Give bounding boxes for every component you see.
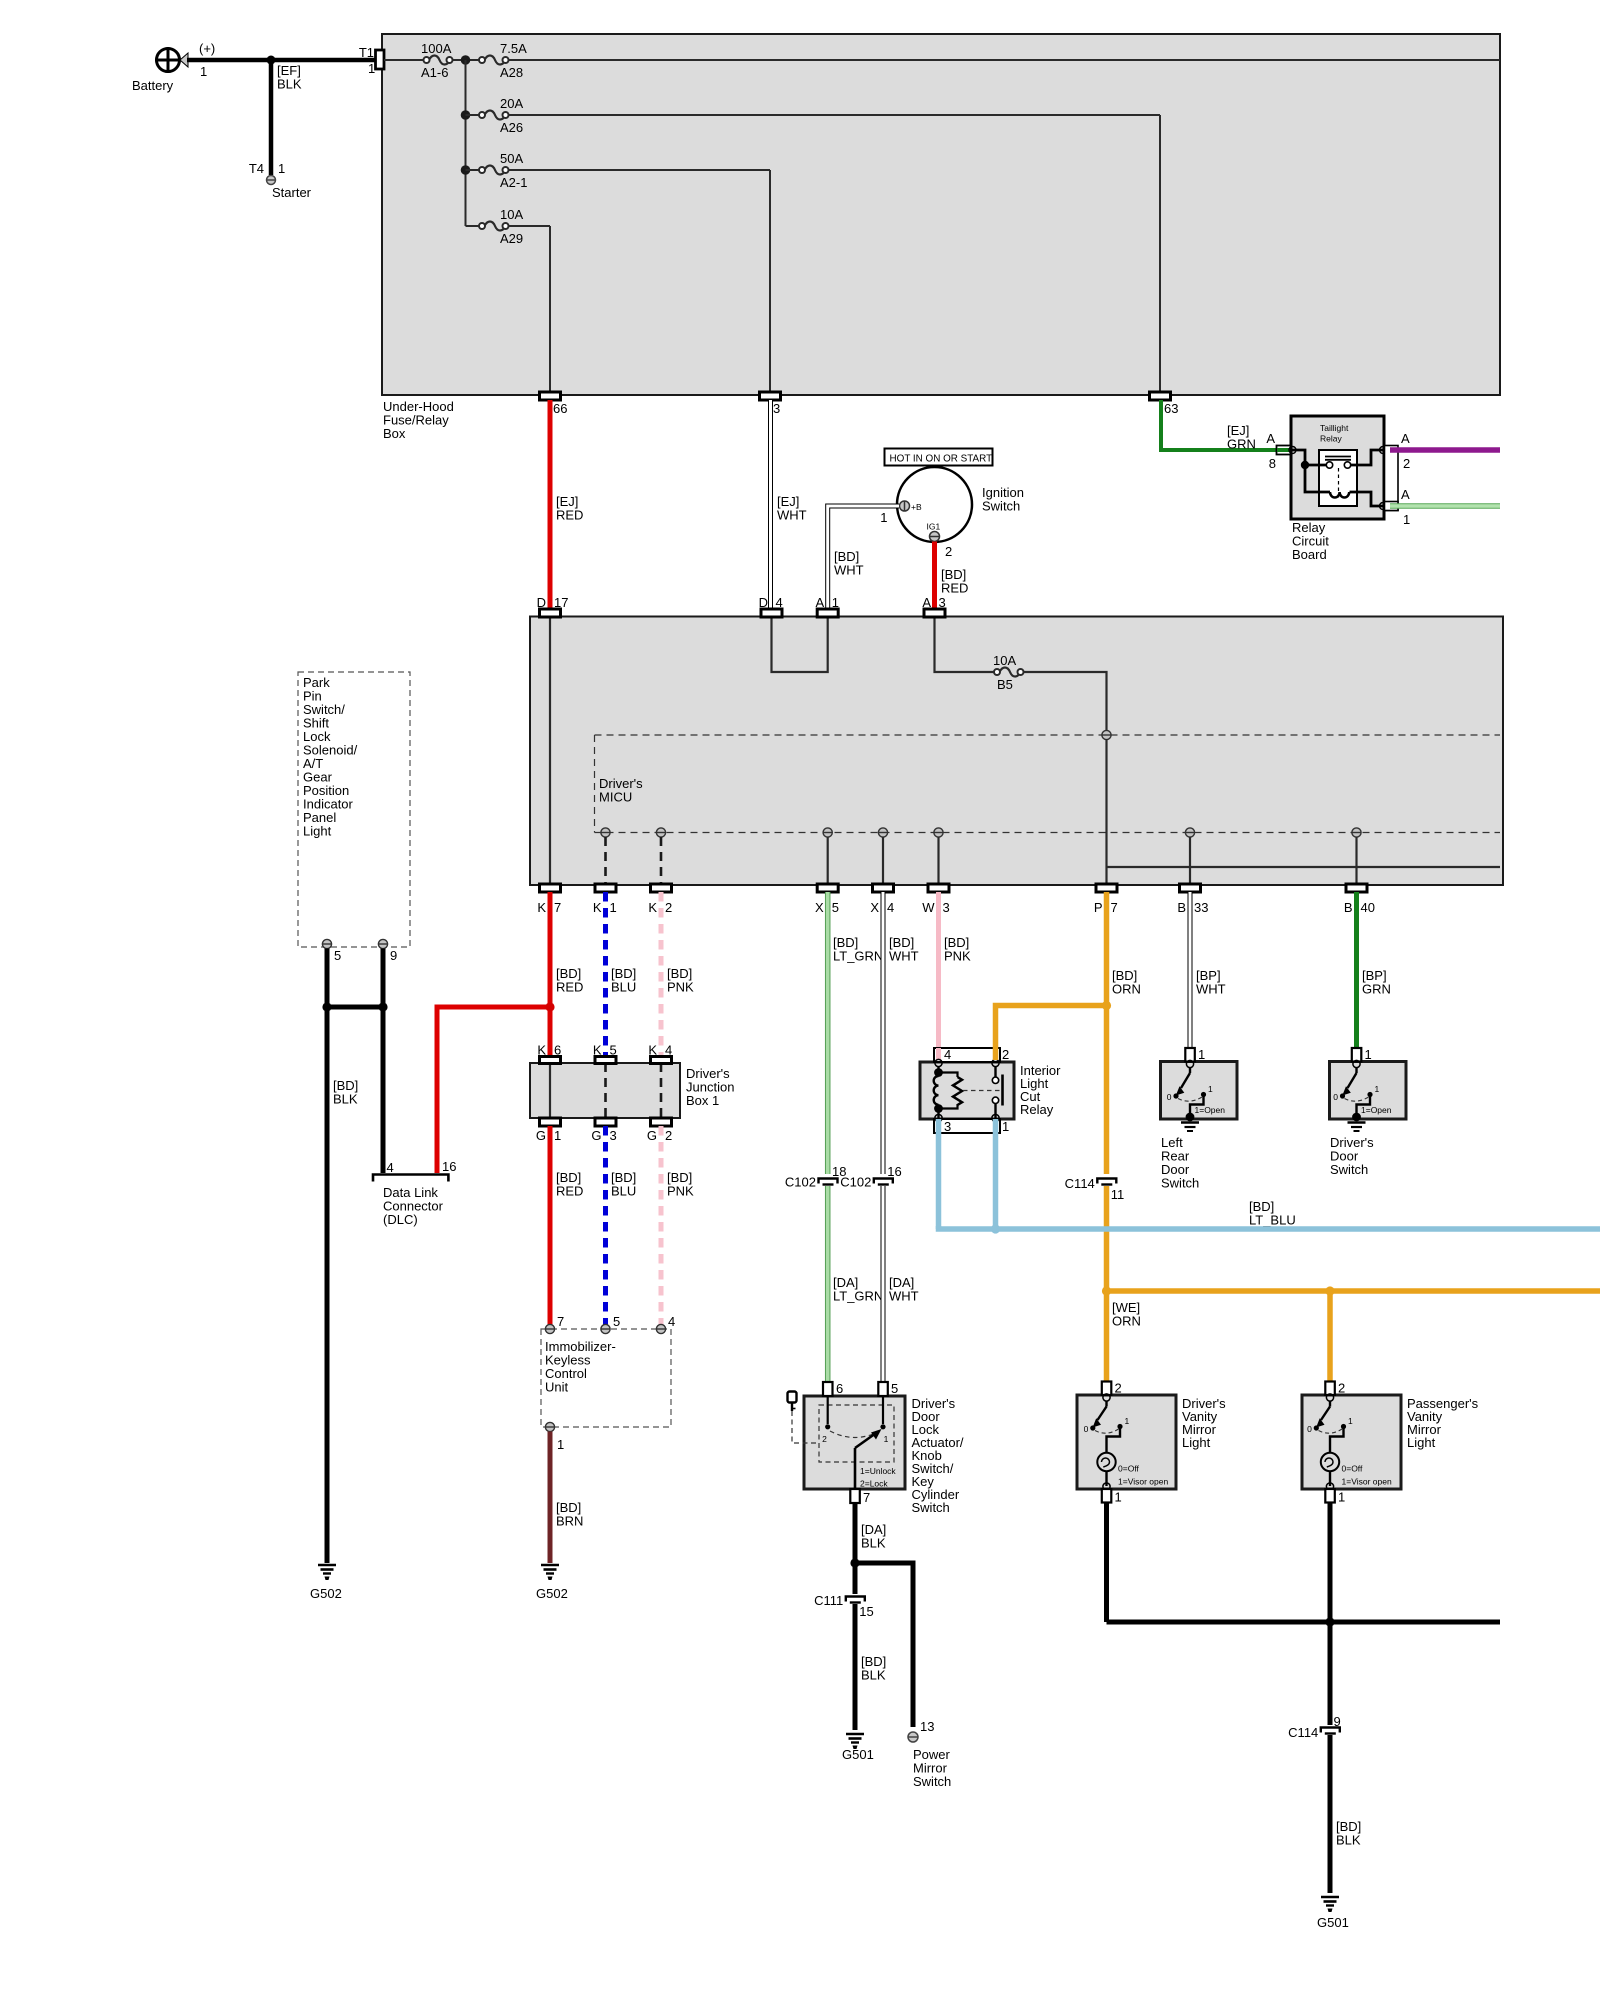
wire MICU internal D4 to A1 xyxy=(772,617,828,673)
svg-text:A: A xyxy=(1266,431,1275,446)
pin G3 xyxy=(591,1118,616,1143)
node X5 xyxy=(823,828,832,837)
junction black at power mirror branch xyxy=(850,1558,859,1567)
driver's door switch contact 1 xyxy=(1367,1084,1379,1097)
svg-text:Light: Light xyxy=(1182,1435,1211,1450)
svg-text:7.5A: 7.5A xyxy=(500,41,527,56)
wire orange to passenger vanity xyxy=(1327,1291,1333,1383)
svg-text:Starter: Starter xyxy=(272,185,312,200)
relay coil xyxy=(934,1066,943,1118)
passenger's vanity pin 2 xyxy=(1325,1381,1345,1396)
svg-text:0: 0 xyxy=(1333,1092,1338,1102)
svg-text:Switch: Switch xyxy=(912,1500,950,1515)
MICU fuse box body xyxy=(530,617,1503,886)
svg-text:LT_BLU: LT_BLU xyxy=(1249,1213,1296,1228)
ground G501 right xyxy=(1317,1897,1349,1930)
passenger's vanity legend xyxy=(1342,1464,1392,1487)
node immobilizer 7 xyxy=(545,1314,564,1334)
pin K1 xyxy=(593,884,617,915)
terminal IG1 pin 2 xyxy=(927,522,953,560)
wire [DA] BLK actuator 7 down xyxy=(855,1503,886,1563)
svg-text:3: 3 xyxy=(944,1119,951,1134)
svg-text:HOT IN ON OR START: HOT IN ON OR START xyxy=(890,454,993,465)
passenger's vanity top circle xyxy=(1326,1394,1333,1401)
svg-text:G: G xyxy=(647,1128,657,1143)
svg-text:2: 2 xyxy=(1403,456,1410,471)
svg-text:BLK: BLK xyxy=(1336,1833,1361,1848)
fuse 100A A1-6 xyxy=(421,41,453,80)
relay switch contacts xyxy=(992,1066,1002,1118)
connector C114 pin 11 xyxy=(1065,1176,1125,1202)
svg-text:WHT: WHT xyxy=(834,563,864,578)
svg-text:G501: G501 xyxy=(1317,1915,1349,1930)
connector C102 pin 16 xyxy=(840,1164,902,1190)
svg-text:RED: RED xyxy=(941,581,968,596)
left rear door switch box xyxy=(1161,1062,1238,1191)
svg-text:1: 1 xyxy=(610,900,617,915)
svg-text:Relay: Relay xyxy=(1020,1102,1054,1117)
node park pin 5 xyxy=(322,939,341,963)
svg-text:7: 7 xyxy=(557,1314,564,1329)
battery B1 xyxy=(132,41,215,93)
passenger's vanity lamp feed xyxy=(1330,1427,1344,1453)
wire junction box internal K5-G3 dashed xyxy=(604,1063,607,1118)
park pin switch / shift lock solenoid dashed box xyxy=(298,672,410,947)
left rear door switch common path xyxy=(1190,1095,1204,1116)
svg-text:LT_GRN: LT_GRN xyxy=(833,949,883,964)
pin A1 xyxy=(816,595,839,617)
relay board coil junction xyxy=(1301,461,1309,469)
svg-text:11: 11 xyxy=(1111,1187,1125,1202)
svg-text:G: G xyxy=(591,1128,601,1143)
wire [BD] BLK C111 to G501 xyxy=(855,1604,886,1730)
starter terminal T4-1 xyxy=(249,161,312,200)
connector T1 pin 1 xyxy=(359,45,384,76)
svg-text:0=Off: 0=Off xyxy=(1342,1464,1364,1474)
wire MICU internal node to P7 and bus xyxy=(1107,739,1501,885)
svg-text:BLK: BLK xyxy=(861,1668,886,1683)
svg-text:7: 7 xyxy=(863,1490,870,1505)
svg-text:9: 9 xyxy=(390,948,397,963)
svg-text:63: 63 xyxy=(1164,401,1178,416)
svg-text:Relay: Relay xyxy=(1320,434,1342,444)
svg-text:1: 1 xyxy=(1002,1119,1009,1134)
svg-text:Taillight: Taillight xyxy=(1320,423,1349,433)
node K2 xyxy=(656,828,665,837)
svg-text:ORN: ORN xyxy=(1112,982,1141,997)
svg-text:X: X xyxy=(870,900,879,915)
svg-text:Box 1: Box 1 xyxy=(686,1093,719,1108)
svg-text:8: 8 xyxy=(1269,456,1276,471)
connector C102 pin 18 xyxy=(785,1164,847,1190)
ground G501 left xyxy=(842,1734,874,1762)
node park pin 9 xyxy=(378,939,397,963)
wire [DA] WHT C102 to actuator 5 xyxy=(883,1186,919,1383)
wire PUR relay output 2 xyxy=(1390,447,1500,453)
svg-text:17: 17 xyxy=(554,595,568,610)
svg-text:PNK: PNK xyxy=(667,1184,694,1199)
svg-text:5: 5 xyxy=(610,1043,617,1058)
relay board internal wiring xyxy=(1291,450,1383,506)
junction feed row2 xyxy=(461,110,471,120)
wire [BD] BLU K1 to K5 xyxy=(606,892,637,1056)
wire [BD] LT_BLU relay 3 to bus xyxy=(939,1119,1296,1229)
svg-text:0: 0 xyxy=(1084,1424,1089,1434)
svg-text:A28: A28 xyxy=(500,65,523,80)
wire 10A output to pin 66 xyxy=(509,226,551,393)
svg-text:20A: 20A xyxy=(500,96,523,111)
svg-text:A: A xyxy=(816,595,825,610)
wire black driver's vanity 1 to bus xyxy=(1104,1503,1109,1623)
junction feed row1 xyxy=(461,55,471,65)
wire battery to T1 xyxy=(187,58,376,63)
svg-text:2: 2 xyxy=(945,544,952,559)
svg-text:GRN: GRN xyxy=(1362,982,1391,997)
driver's vanity mirror light box xyxy=(1077,1395,1226,1489)
svg-text:4: 4 xyxy=(776,595,783,610)
key dashed link xyxy=(792,1411,819,1443)
wire MICU internal dashed to K2 xyxy=(660,837,663,885)
wire [EJ] RED pin66 to D17 xyxy=(550,400,583,610)
svg-text:5: 5 xyxy=(832,900,839,915)
svg-text:G501: G501 xyxy=(842,1747,874,1762)
passenger's vanity contact 1 xyxy=(1341,1416,1353,1429)
svg-text:1: 1 xyxy=(884,1434,889,1444)
pin P7 xyxy=(1094,884,1118,915)
wire junction box internal K4-G2 dashed xyxy=(660,1063,663,1118)
relay resistor xyxy=(939,1073,963,1109)
svg-text:K: K xyxy=(537,900,546,915)
svg-text:BLK: BLK xyxy=(333,1092,358,1107)
svg-text:1: 1 xyxy=(1125,1416,1130,1426)
fuse 7.5A A28 xyxy=(479,41,527,80)
pin W3 xyxy=(922,884,950,915)
svg-text:Switch: Switch xyxy=(1330,1162,1368,1177)
svg-text:1: 1 xyxy=(554,1128,561,1143)
svg-text:K: K xyxy=(537,1043,546,1058)
wire 7.5A output xyxy=(509,59,1501,61)
svg-text:W: W xyxy=(922,900,935,915)
svg-text:RED: RED xyxy=(556,1184,583,1199)
svg-text:4: 4 xyxy=(387,1160,394,1175)
node B5 feed on dashed line xyxy=(1102,730,1111,739)
fuse 10A A29 xyxy=(466,207,524,246)
actuator switch dashed arc xyxy=(830,1431,880,1438)
svg-text:1: 1 xyxy=(1115,1490,1122,1505)
svg-text:ORN: ORN xyxy=(1112,1314,1141,1329)
wire to C111 xyxy=(853,1563,858,1594)
svg-text:D: D xyxy=(537,595,546,610)
svg-text:Light: Light xyxy=(1407,1435,1436,1450)
wire [WE] ORN C114 down to vanity feed xyxy=(1107,1186,1141,1383)
driver's door switch contact 0 xyxy=(1333,1092,1345,1102)
wire orange branch to relay pin 2 xyxy=(996,1006,1107,1061)
wire black passenger's vanity 1 to C114 xyxy=(1328,1503,1333,1726)
wire park pin 9 to DLC 4 xyxy=(381,949,386,1174)
wire [BD] BRN immobilizer 1 to G502 xyxy=(550,1432,583,1564)
driver's door switch ground xyxy=(1348,1113,1366,1131)
svg-text:K: K xyxy=(593,900,602,915)
svg-text:66: 66 xyxy=(553,401,567,416)
svg-text:1: 1 xyxy=(200,64,207,79)
wire 20A output to pin 63 xyxy=(509,115,1161,393)
pin D4 xyxy=(759,595,783,617)
svg-text:2: 2 xyxy=(1338,1381,1345,1396)
svg-text:D: D xyxy=(759,595,768,610)
node B33 xyxy=(1185,828,1194,837)
fuse 10A B5 xyxy=(993,653,1024,692)
driver's vanity lamp to pin 1 xyxy=(1105,1472,1107,1487)
svg-text:A2-1: A2-1 xyxy=(500,175,527,190)
wire MICU internal to B33 xyxy=(1189,837,1191,885)
svg-text:C102: C102 xyxy=(840,1175,871,1190)
svg-text:4: 4 xyxy=(887,900,894,915)
svg-text:Unit: Unit xyxy=(545,1380,569,1395)
svg-text:Board: Board xyxy=(1292,547,1327,562)
driver's vanity pin 2 xyxy=(1102,1381,1122,1396)
svg-text:1=Visor open: 1=Visor open xyxy=(1342,1477,1392,1487)
wire MICU internal A3 to fuse B5 xyxy=(935,617,995,673)
wire [BD] RED G1 to immobilizer 7 xyxy=(550,1126,583,1325)
svg-text:16: 16 xyxy=(442,1159,456,1174)
immobilizer-keyless control unit dashed box xyxy=(541,1329,671,1427)
pin K5 xyxy=(593,1043,617,1064)
svg-text:3: 3 xyxy=(943,900,950,915)
svg-text:Switch: Switch xyxy=(1161,1176,1199,1191)
left rear door switch contact circle xyxy=(1186,1060,1193,1067)
svg-text:K: K xyxy=(648,900,657,915)
svg-text:RED: RED xyxy=(556,980,583,995)
junction red K7 xyxy=(545,1002,554,1011)
svg-text:A29: A29 xyxy=(500,231,523,246)
terminal power mirror switch 13 xyxy=(908,1719,951,1789)
passenger's vanity bottom circle xyxy=(1326,1483,1333,1490)
svg-text:PNK: PNK xyxy=(667,980,694,995)
pin G2 xyxy=(647,1118,672,1143)
svg-text:10A: 10A xyxy=(993,653,1016,668)
driver's door switch arm xyxy=(1342,1068,1356,1096)
svg-text:15: 15 xyxy=(859,1604,873,1619)
wire MICU internal to X5 xyxy=(827,837,829,885)
junction crosslink left xyxy=(322,1002,331,1011)
svg-text:B5: B5 xyxy=(997,677,1013,692)
left rear door switch dashed arc xyxy=(1178,1097,1202,1101)
junction black vanity bus xyxy=(1325,1617,1334,1626)
svg-text:BRN: BRN xyxy=(556,1514,583,1529)
relay bottom connector pins 3 and 1 xyxy=(934,1119,1009,1134)
ground G502 right xyxy=(536,1565,568,1601)
svg-text:Switch: Switch xyxy=(982,499,1020,514)
pin K7 xyxy=(537,884,561,915)
wire [BD] PNK K2 to K4 xyxy=(661,892,694,1056)
pin K2 xyxy=(648,884,672,915)
wire [BD] RED DLC 16 to K7/K6 xyxy=(437,1007,550,1173)
svg-text:B: B xyxy=(1177,900,1186,915)
driver's door switch pin 1 xyxy=(1352,1047,1372,1062)
actuator legend xyxy=(860,1466,896,1489)
svg-text:1: 1 xyxy=(278,161,285,176)
svg-text:10A: 10A xyxy=(500,207,523,222)
svg-text:1: 1 xyxy=(1338,1490,1345,1505)
junction battery/starter xyxy=(267,56,276,65)
svg-text:33: 33 xyxy=(1194,900,1208,915)
svg-text:WHT: WHT xyxy=(889,1289,919,1304)
under-hood fuse/relay box xyxy=(382,34,1500,441)
node K1 xyxy=(601,828,610,837)
node immobilizer 1 xyxy=(545,1422,564,1452)
relay pin 1 circle xyxy=(992,1114,999,1121)
node X4 xyxy=(878,828,887,837)
actuator pin 6 xyxy=(823,1381,843,1396)
actuator switch arm xyxy=(855,1429,882,1489)
node immobilizer 5 xyxy=(601,1314,620,1334)
svg-text:G: G xyxy=(536,1128,546,1143)
svg-text:6: 6 xyxy=(836,1381,843,1396)
svg-text:1=Visor open: 1=Visor open xyxy=(1118,1477,1168,1487)
svg-text:2: 2 xyxy=(1002,1047,1009,1062)
pin G1 xyxy=(536,1118,561,1143)
relay pin 2 circle xyxy=(992,1059,999,1066)
svg-text:4: 4 xyxy=(665,1043,672,1058)
pin 66 xyxy=(540,392,568,416)
svg-text:RED: RED xyxy=(556,508,583,523)
terminal +B pin 1 xyxy=(880,501,922,525)
actuator contact 1 xyxy=(880,1396,888,1444)
wire MICU internal to B40 xyxy=(1355,837,1357,885)
svg-text:7: 7 xyxy=(1111,900,1118,915)
relay pin 3 circle xyxy=(935,1114,942,1121)
passenger's vanity lamp to pin 1 xyxy=(1329,1472,1331,1487)
svg-text:BLK: BLK xyxy=(861,1536,886,1551)
wire LT_GRN relay output 1 xyxy=(1390,503,1500,509)
wire black ground bus xyxy=(1107,1620,1501,1625)
driver's MICU dashed box xyxy=(595,735,1501,833)
pin 63 xyxy=(1150,392,1179,416)
wire MICU internal dashed to K1 xyxy=(604,837,607,885)
wire [BD] PNK G2 to immobilizer 4 xyxy=(661,1126,694,1325)
driver's vanity pin 1 xyxy=(1102,1489,1122,1505)
svg-text:T4: T4 xyxy=(249,161,264,176)
wire [BD] BLU G3 to immobilizer 5 xyxy=(606,1126,637,1325)
pin A3 xyxy=(922,595,945,617)
taillight relay inner box xyxy=(1319,450,1357,506)
wire [BD] RED IG1 to A3 xyxy=(935,542,969,611)
junction crosslink right xyxy=(378,1002,387,1011)
svg-text:X: X xyxy=(815,900,824,915)
left rear door switch ground xyxy=(1181,1113,1199,1131)
fuse 50A A2-1 xyxy=(466,151,528,190)
svg-text:GRN: GRN xyxy=(1227,437,1256,452)
wire [BD] WHT A1 to ignition +B xyxy=(828,506,899,610)
svg-text:4: 4 xyxy=(668,1314,675,1329)
svg-text:2: 2 xyxy=(665,1128,672,1143)
svg-text:5: 5 xyxy=(891,1381,898,1396)
driver's vanity switch arm xyxy=(1093,1401,1107,1428)
driver's vanity dashed arc xyxy=(1095,1429,1119,1433)
svg-text:1: 1 xyxy=(1365,1047,1372,1062)
actuator contact 2 xyxy=(822,1396,830,1444)
svg-text:100A: 100A xyxy=(421,41,452,56)
svg-text:C114: C114 xyxy=(1065,1176,1095,1191)
relay circuit board xyxy=(1291,416,1384,562)
svg-text:BLK: BLK xyxy=(277,77,302,92)
svg-text:PNK: PNK xyxy=(944,949,971,964)
svg-text:A1-6: A1-6 xyxy=(421,65,448,80)
svg-text:A: A xyxy=(1401,487,1410,502)
driver's door lock actuator box xyxy=(804,1396,964,1515)
passenger's vanity dashed arc xyxy=(1319,1429,1343,1433)
svg-text:2: 2 xyxy=(822,1434,827,1444)
pin D17 xyxy=(537,595,569,617)
relay board input connector A 8 xyxy=(1266,431,1296,471)
wire LT_BLU bus xyxy=(939,1226,1600,1229)
pin X4 xyxy=(870,884,894,915)
wire [BP] GRN B40 to driver's door switch xyxy=(1357,892,1391,1048)
svg-text:16: 16 xyxy=(887,1164,901,1179)
pin K4 xyxy=(648,1043,672,1064)
wire B5 fuse to MICU node xyxy=(1024,672,1107,730)
wire pink into relay pin 4 xyxy=(936,1048,941,1060)
svg-text:1=Open: 1=Open xyxy=(1195,1105,1226,1115)
svg-text:Switch: Switch xyxy=(913,1774,951,1789)
svg-text:A26: A26 xyxy=(500,120,523,135)
node immobilizer 4 xyxy=(656,1314,675,1334)
junction orange at P7 xyxy=(1102,1001,1111,1010)
junction feed row3 xyxy=(461,165,471,175)
svg-text:7: 7 xyxy=(554,900,561,915)
svg-text:9: 9 xyxy=(1334,1714,1341,1729)
svg-text:50A: 50A xyxy=(500,151,523,166)
svg-text:(DLC): (DLC) xyxy=(383,1212,418,1227)
svg-text:1: 1 xyxy=(1348,1416,1353,1426)
interior light cut relay box xyxy=(920,1062,1061,1119)
svg-text:+B: +B xyxy=(911,502,922,512)
svg-text:BLU: BLU xyxy=(611,980,636,995)
svg-text:3: 3 xyxy=(610,1128,617,1143)
key symbol xyxy=(788,1392,797,1412)
svg-text:C114: C114 xyxy=(1288,1725,1318,1740)
passenger's vanity pin 1 xyxy=(1325,1489,1345,1505)
ground G502 left xyxy=(310,1565,342,1601)
svg-text:2: 2 xyxy=(665,900,672,915)
wire [EF] BLK to starter xyxy=(271,60,302,175)
svg-text:A: A xyxy=(922,595,931,610)
wire MICU internal D17-K7 xyxy=(549,617,551,886)
wire LT_BLU relay 1 to bus xyxy=(993,1119,999,1229)
svg-text:Light: Light xyxy=(303,824,332,839)
data link connector DLC xyxy=(373,1159,456,1227)
svg-text:4: 4 xyxy=(944,1047,951,1062)
svg-text:5: 5 xyxy=(334,948,341,963)
pin B40 xyxy=(1344,884,1375,915)
wire black crosslink xyxy=(327,1005,383,1010)
svg-text:C102: C102 xyxy=(785,1175,816,1190)
svg-text:1: 1 xyxy=(1375,1084,1380,1094)
wire [BP] WHT B33 to left rear door switch xyxy=(1190,892,1226,1048)
svg-text:2=Lock: 2=Lock xyxy=(860,1479,888,1489)
svg-text:B: B xyxy=(1344,900,1353,915)
wire branch to power mirror switch xyxy=(855,1563,913,1727)
driver's vanity contact 1 xyxy=(1117,1416,1129,1429)
svg-text:3: 3 xyxy=(773,401,780,416)
left rear door switch pin 1 xyxy=(1185,1047,1205,1062)
svg-text:1=Open: 1=Open xyxy=(1361,1105,1392,1115)
svg-text:T1: T1 xyxy=(359,45,374,60)
svg-text:WHT: WHT xyxy=(1196,982,1226,997)
svg-text:1: 1 xyxy=(1208,1084,1213,1094)
pin K6 xyxy=(537,1043,561,1064)
wire T1 to 100A fuse xyxy=(384,59,424,61)
